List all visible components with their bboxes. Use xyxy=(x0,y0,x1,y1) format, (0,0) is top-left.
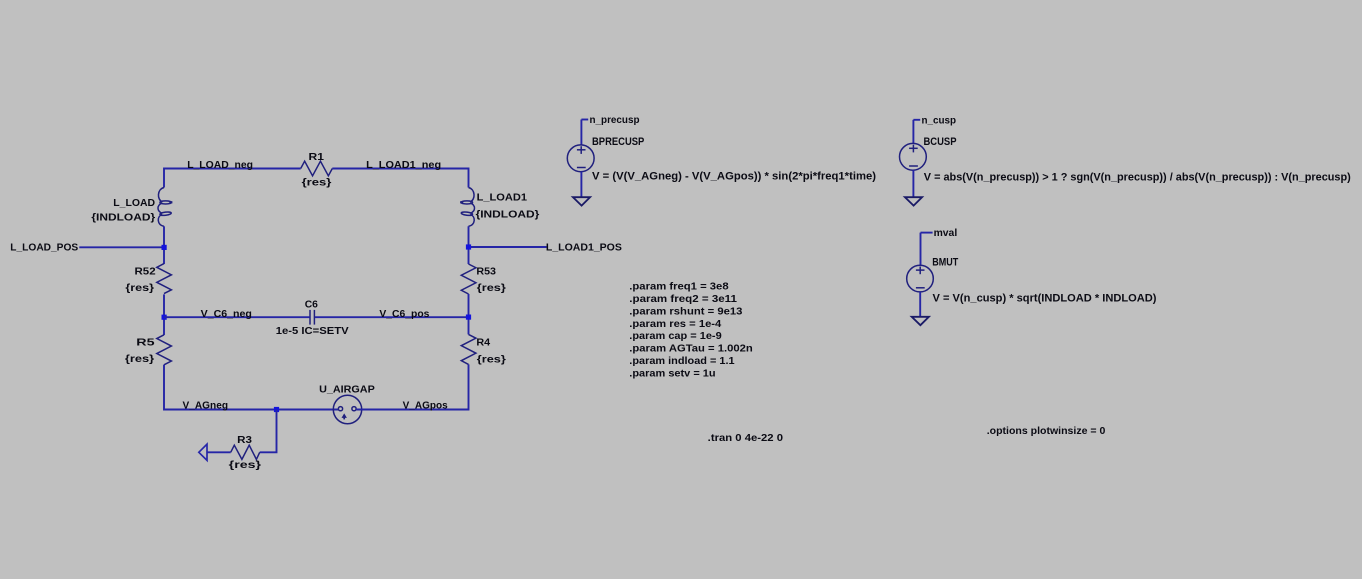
wire middle left of C6 xyxy=(164,316,310,318)
wire left vertical inductor to junction xyxy=(163,226,165,264)
svg-text:{res}: {res} xyxy=(125,283,154,294)
svg-text:{res}: {res} xyxy=(477,283,506,294)
svg-text:R1: R1 xyxy=(309,152,325,163)
wire right vertical above inductor xyxy=(468,168,470,188)
wire top horizontal right of R1 xyxy=(332,168,468,170)
svg-text:{INDLOAD}: {INDLOAD} xyxy=(476,210,540,221)
svg-text:1e-5 IC=SETV: 1e-5 IC=SETV xyxy=(276,326,349,337)
U_AIRGAP circle xyxy=(333,395,361,423)
junction right V_C6_pos xyxy=(466,315,471,320)
svg-text:L_LOAD_POS: L_LOAD_POS xyxy=(10,243,78,254)
wire top horizontal left of R1 xyxy=(164,168,301,170)
svg-text:R5: R5 xyxy=(136,338,155,349)
svg-text:.param indload = 1.1: .param indload = 1.1 xyxy=(629,356,735,367)
ground BMUT xyxy=(912,317,929,325)
svg-text:.param setv = 1u: .param setv = 1u xyxy=(629,368,715,379)
svg-text:{res}: {res} xyxy=(229,460,261,471)
svg-text:n_precusp: n_precusp xyxy=(590,115,640,126)
svg-text:.param cap = 1e-9: .param cap = 1e-9 xyxy=(629,331,722,342)
arrow left flag xyxy=(199,444,207,460)
wire R5 down to bottom corner and right xyxy=(164,365,338,410)
wire BMUT top xyxy=(920,233,922,266)
svg-text:BPRECUSP: BPRECUSP xyxy=(592,136,644,148)
flag stub n_precusp xyxy=(581,119,588,121)
resistor R4 xyxy=(461,334,476,364)
svg-text:{res}: {res} xyxy=(302,177,332,188)
wire R3 vertical drop xyxy=(260,410,277,453)
wire L_LOAD_POS lead xyxy=(79,246,164,248)
svg-text:L_LOAD1_POS: L_LOAD1_POS xyxy=(546,243,622,254)
svg-text:.tran 0 4e-22 0: .tran 0 4e-22 0 xyxy=(708,432,783,444)
junction left V_C6_neg xyxy=(162,315,167,320)
wire right vertical inductor to junction xyxy=(468,226,470,264)
resistor R3 xyxy=(231,445,260,459)
wire BPRECUSP bottom xyxy=(580,172,582,197)
svg-text:L_LOAD_neg: L_LOAD_neg xyxy=(187,160,253,171)
svg-text:n_cusp: n_cusp xyxy=(922,115,957,126)
svg-text:BMUT: BMUT xyxy=(932,256,958,268)
wire BCUSP bottom xyxy=(912,170,914,197)
svg-text:{res}: {res} xyxy=(125,354,154,365)
svg-text:.param AGTau = 1.002n: .param AGTau = 1.002n xyxy=(629,344,752,355)
svg-text:{res}: {res} xyxy=(477,355,506,366)
svg-text:L_LOAD1_neg: L_LOAD1_neg xyxy=(366,160,441,171)
svg-text:C6: C6 xyxy=(305,300,318,311)
flag stub n_cusp xyxy=(913,119,920,121)
airgap arrow xyxy=(342,413,347,419)
svg-text:R53: R53 xyxy=(476,267,496,278)
junction bottom R3 tap xyxy=(274,407,279,412)
B-source BPRECUSP xyxy=(567,120,594,206)
inductor L_LOAD xyxy=(158,188,172,227)
svg-text:.param freq2 = 3e11: .param freq2 = 3e11 xyxy=(629,294,737,305)
wire R53 to junction xyxy=(468,294,470,334)
resistor R52 xyxy=(157,264,172,294)
op circle BMUT xyxy=(907,265,934,292)
wire left vertical above inductor xyxy=(163,168,165,188)
wire L_LOAD1_POS lead xyxy=(469,246,547,248)
svg-text:R4: R4 xyxy=(476,338,490,349)
svg-text:L_LOAD: L_LOAD xyxy=(113,198,155,209)
svg-text:.param freq1 = 3e8: .param freq1 = 3e8 xyxy=(629,282,729,293)
svg-text:mval: mval xyxy=(934,228,958,239)
svg-text:{INDLOAD}: {INDLOAD} xyxy=(91,213,155,224)
svg-text:V = (V(V_AGneg) - V(V_AGpos)): V = (V(V_AGneg) - V(V_AGpos)) * sin(2*pi… xyxy=(592,171,876,183)
ground BPRECUSP xyxy=(573,197,590,205)
B-source BMUT xyxy=(907,233,934,326)
wire R52 to middle junction xyxy=(163,294,165,335)
svg-text:V = V(n_cusp) * sqrt(INDLOAD *: V = V(n_cusp) * sqrt(INDLOAD * INDLOAD) xyxy=(933,292,1157,304)
ground BCUSP xyxy=(905,197,922,205)
svg-text:V_AGpos: V_AGpos xyxy=(403,400,448,411)
junction right L_LOAD1_POS xyxy=(466,244,471,249)
svg-text:BCUSP: BCUSP xyxy=(924,136,957,148)
flag stub mval xyxy=(921,232,933,234)
junction left L_LOAD_POS xyxy=(162,245,167,250)
svg-text:L_LOAD1: L_LOAD1 xyxy=(477,193,528,204)
svg-text:.param rshunt = 9e13: .param rshunt = 9e13 xyxy=(629,306,743,317)
svg-text:U_AIRGAP: U_AIRGAP xyxy=(319,385,375,396)
wire airgap right to corner up xyxy=(356,364,468,409)
B-source BCUSP xyxy=(900,120,927,206)
svg-text:.param res = 1e-4: .param res = 1e-4 xyxy=(629,319,721,330)
svg-text:.options plotwinsize = 0: .options plotwinsize = 0 xyxy=(987,425,1106,437)
wire R3 to arrow xyxy=(207,451,231,453)
svg-text:R3: R3 xyxy=(237,435,252,446)
wire middle right of C6 xyxy=(315,316,469,318)
resistor R5 xyxy=(157,335,172,365)
resistor R53 xyxy=(461,264,476,294)
capacitor C6 xyxy=(310,310,314,325)
directive .param block xyxy=(629,282,752,380)
op circle BCUSP xyxy=(900,143,927,170)
wire BCUSP top xyxy=(912,120,914,144)
resistor R1 xyxy=(301,161,333,176)
inductor L_LOAD1 xyxy=(460,188,474,227)
wire BMUT bottom xyxy=(919,292,921,317)
wire BPRECUSP top xyxy=(580,120,582,146)
svg-text:V_AGneg: V_AGneg xyxy=(183,400,229,411)
svg-text:V = abs(V(n_precusp)) > 1 ? sg: V = abs(V(n_precusp)) > 1 ? sgn(V(n_prec… xyxy=(924,171,1351,183)
op circle BPRECUSP xyxy=(567,145,594,172)
svg-text:V_C6_pos: V_C6_pos xyxy=(379,309,429,320)
svg-text:R52: R52 xyxy=(135,266,156,277)
svg-text:V_C6_neg: V_C6_neg xyxy=(201,309,252,320)
